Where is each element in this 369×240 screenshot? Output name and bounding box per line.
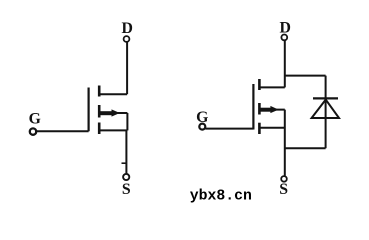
svg-text:S: S bbox=[279, 181, 288, 198]
svg-text:G: G bbox=[196, 109, 208, 126]
transistor Q1 drain channel segment bbox=[98, 86, 101, 97]
transistor Q2 middle (body) channel segment bbox=[258, 103, 261, 115]
transistor Q1 body arrow (thick shaft + head) bbox=[100, 111, 113, 115]
node D terminal circle (right) bbox=[281, 35, 287, 41]
wire: left source horizontal bbox=[99, 129, 127, 131]
transistor Q2 drain channel segment bbox=[258, 79, 261, 90]
svg-text:ybx8.cn: ybx8.cn bbox=[190, 188, 252, 204]
node G terminal circle (left) bbox=[30, 128, 36, 134]
node G terminal circle (right) bbox=[199, 124, 205, 130]
diode D1 cathode bar bbox=[313, 97, 338, 99]
wire: left body-to-source vertical bbox=[126, 113, 128, 130]
wire: right gate horizontal from G circle to gate bar bbox=[205, 128, 253, 130]
diode D1 triangle outline (anode, pointing up) bbox=[312, 100, 339, 118]
wire: left drain horizontal to channel bbox=[99, 93, 127, 95]
wire: right drain horizontal to channel bbox=[259, 86, 285, 88]
wire: diode branch vertical (passes through diode) bbox=[325, 76, 327, 149]
wire: right source horizontal bbox=[259, 127, 285, 129]
transistor Q1 gate bar bbox=[87, 88, 89, 132]
wire: left source vertical down to S circle bbox=[125, 130, 127, 173]
wire: bottom junction horizontal from diode branch to source bbox=[285, 147, 326, 149]
transistor Q1 middle (body) channel segment bbox=[98, 105, 101, 118]
wire: right body horizontal with arrow bbox=[259, 109, 285, 111]
svg-text:G: G bbox=[29, 110, 41, 127]
wire: left gate horizontal from G circle to gate bar bbox=[37, 130, 89, 132]
node S terminal circle (right) bbox=[281, 176, 287, 182]
transistor Q2 source channel segment bbox=[258, 123, 261, 134]
transistor Q2 body arrow (thick shaft + head) bbox=[260, 108, 272, 112]
svg-text:D: D bbox=[121, 20, 132, 37]
transistor Q1 source channel segment bbox=[98, 123, 101, 135]
wire nub (scan mark) on left source wire bbox=[122, 162, 127, 164]
wire: left body horizontal with arrow to source column bbox=[99, 112, 127, 114]
node D terminal circle (left) bbox=[124, 36, 130, 42]
svg-text:S: S bbox=[122, 181, 131, 198]
wire: right drain vertical from D circle down bbox=[284, 41, 286, 88]
node S terminal circle (left) bbox=[123, 174, 129, 180]
svg-text:D: D bbox=[279, 19, 290, 36]
wire: top junction horizontal to diode branch bbox=[285, 75, 326, 77]
wire: left drain vertical from D circle down bbox=[126, 42, 128, 94]
transistor Q2 gate bar bbox=[252, 84, 254, 130]
wire: right source vertical down through junctions to S circle bbox=[284, 110, 286, 176]
